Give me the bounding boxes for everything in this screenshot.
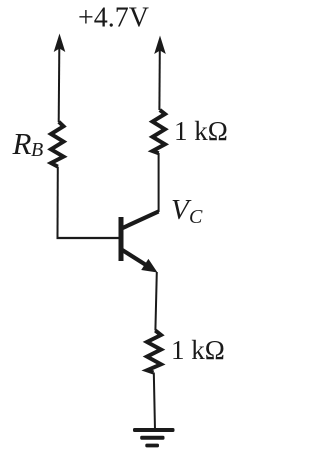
label RB — [12, 126, 44, 161]
wire emitter to RE — [155, 272, 156, 331]
transistor Q1 emitter lead with arrow — [122, 250, 158, 273]
transistor Q1 collector lead — [122, 212, 159, 229]
svg-text:R: R — [12, 126, 32, 161]
wire base horizontal to Q1 — [57, 237, 120, 239]
wire right supply to RC — [158, 50, 160, 110]
svg-text:1 kΩ: 1 kΩ — [174, 116, 228, 146]
resistor RB — [51, 122, 64, 167]
svg-text:C: C — [189, 206, 203, 228]
resistor RC 1 kOhm — [153, 110, 166, 153]
svg-text:B: B — [31, 139, 43, 161]
wire RE to ground — [154, 373, 155, 431]
wire RB down to corner — [57, 167, 59, 238]
svg-text:1 kΩ: 1 kΩ — [171, 335, 225, 365]
ground — [133, 428, 175, 447]
transistor Q1 base bar — [119, 217, 124, 261]
power arrow right supply — [154, 36, 166, 55]
wire left supply to RB — [58, 48, 61, 122]
wire RC to collector node VC — [158, 153, 160, 212]
power arrow left supply — [54, 34, 66, 53]
label VC — [171, 194, 203, 228]
resistor RE 1 kOhm — [147, 331, 161, 373]
svg-text:+4.7V: +4.7V — [78, 2, 149, 34]
